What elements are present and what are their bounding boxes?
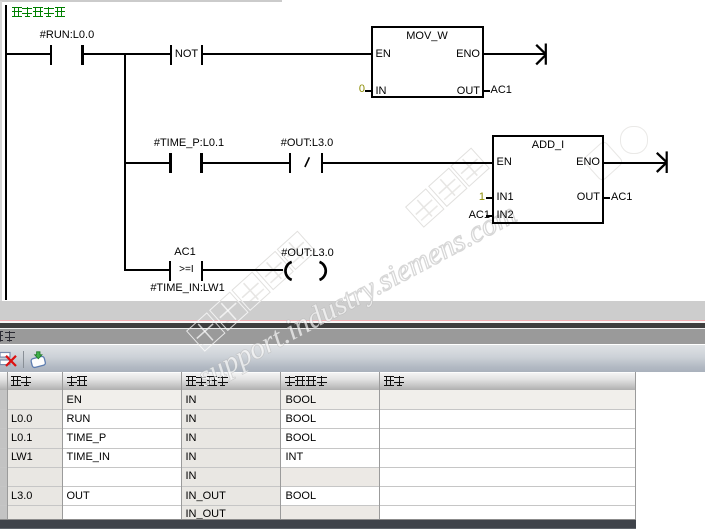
wire rail to contact RUN xyxy=(6,53,50,55)
left power rail xyxy=(5,5,7,300)
bottom scrollbar dark bar xyxy=(0,519,636,520)
value 1 at IN1 xyxy=(430,192,485,203)
toolbar icon: insert/import xyxy=(29,350,49,369)
wire NC contact to ADD_I EN xyxy=(323,162,492,164)
title bar xyxy=(0,329,705,345)
label #OUT:L3.0 above coil xyxy=(253,248,363,259)
NC contact bar 1 xyxy=(289,153,291,173)
wire branch to compare contact xyxy=(126,269,169,271)
branch vertical wire xyxy=(124,53,126,271)
operand AC1 at OUT (ADD_I) xyxy=(611,192,632,203)
watermark chinese chars 西门子工业 xyxy=(186,229,318,352)
title text (clipped 量表) xyxy=(0,331,17,343)
left dithered border xyxy=(0,1,2,301)
header row background xyxy=(0,372,636,392)
watermark lighten copies clipped to bottom pane xyxy=(0,301,705,529)
ADD_I title xyxy=(493,140,603,151)
tick IN1 xyxy=(486,197,492,199)
contact #RUN:L0.0 bar 1 xyxy=(50,45,52,65)
operand AC1 at IN2 xyxy=(435,210,490,221)
label AC1 above compare contact xyxy=(130,247,240,258)
pink separator line xyxy=(0,320,705,322)
tick IN2 xyxy=(486,215,492,217)
wire contact RUN to NOT xyxy=(84,53,170,55)
contact #TIME_P bar 1 xyxy=(169,153,171,173)
arrow (right rail) of rung 1 xyxy=(536,44,547,65)
coil #OUT:L3.0 xyxy=(285,262,325,280)
compare contact bar 1 xyxy=(169,261,171,281)
pin OUT xyxy=(425,86,480,97)
tick OUT (ADD_I) xyxy=(604,197,610,199)
row1 highlight cells xyxy=(63,390,181,409)
wire compare contact to coil xyxy=(203,269,283,271)
pin OUT (ADD_I) xyxy=(545,192,600,203)
toolbar separator xyxy=(23,351,24,368)
compare text >=I xyxy=(131,264,241,275)
tick OUT xyxy=(484,90,490,92)
pin IN1 xyxy=(497,192,514,203)
contact #TIME_P bar 2 xyxy=(200,153,202,173)
wire TIME_P to NC contact xyxy=(203,162,289,164)
table column backgrounds xyxy=(0,390,636,520)
vertical grid lines xyxy=(7,372,8,520)
NOT contact bar 2 xyxy=(201,45,203,65)
watermark latin support.industry.siemens.com xyxy=(193,199,521,393)
toolbar xyxy=(0,345,705,372)
label #OUT:L3.0 xyxy=(252,138,362,149)
NOT label xyxy=(132,49,242,60)
tick IN xyxy=(365,90,371,92)
arrow (right rail) of rung 2 xyxy=(657,151,668,173)
wire ENO (ADD_I) xyxy=(604,162,666,164)
watermark chinese chars 找答案 xyxy=(405,146,492,228)
dark splitter line xyxy=(0,323,705,328)
contact #RUN:L0.0 label xyxy=(12,30,122,41)
NOT contact bar 1 xyxy=(170,45,172,65)
box MOV_W xyxy=(371,26,484,98)
label #TIME_IN:LW1 below xyxy=(133,283,243,294)
white line xyxy=(0,321,705,323)
header highlight top xyxy=(0,372,636,373)
toolbar icon: delete row xyxy=(0,350,20,369)
MOV_W title xyxy=(372,31,482,42)
table rows text xyxy=(67,395,82,406)
box ADD_I xyxy=(492,135,604,224)
pin IN xyxy=(376,86,387,97)
pin ENO (ADD_I) xyxy=(545,157,600,168)
compare contact bar 2 xyxy=(201,261,203,281)
pin EN xyxy=(376,49,391,60)
gray band below ladder xyxy=(0,301,705,320)
header labels xyxy=(11,376,33,387)
watermark puzzle piece 1 xyxy=(582,140,624,182)
top window border line xyxy=(0,0,282,2)
NC contact slash xyxy=(305,157,310,167)
wire NOT to MOV_W EN xyxy=(203,53,371,55)
SVG overlay: arrows, slash, coil xyxy=(0,0,705,301)
NC contact bar 2 xyxy=(321,153,323,173)
pin EN (ADD_I) xyxy=(497,157,512,168)
white hairline xyxy=(0,328,705,329)
label #TIME_P:L0.1 xyxy=(134,138,244,149)
operand AC1 at OUT xyxy=(491,85,512,96)
empty-category rows datatype gray cells xyxy=(281,467,379,486)
network comment text (green) xyxy=(12,7,66,18)
wire branch to contact TIME_P xyxy=(126,162,170,164)
pin IN2 xyxy=(497,210,514,221)
pin ENO xyxy=(425,49,480,60)
wire ENO xyxy=(484,53,546,55)
contact #RUN:L0.0 bar 2 xyxy=(81,45,83,65)
horizontal grid lines xyxy=(0,409,636,410)
watermark puzzle piece 2 xyxy=(620,126,648,154)
value 0 at IN xyxy=(310,84,365,95)
